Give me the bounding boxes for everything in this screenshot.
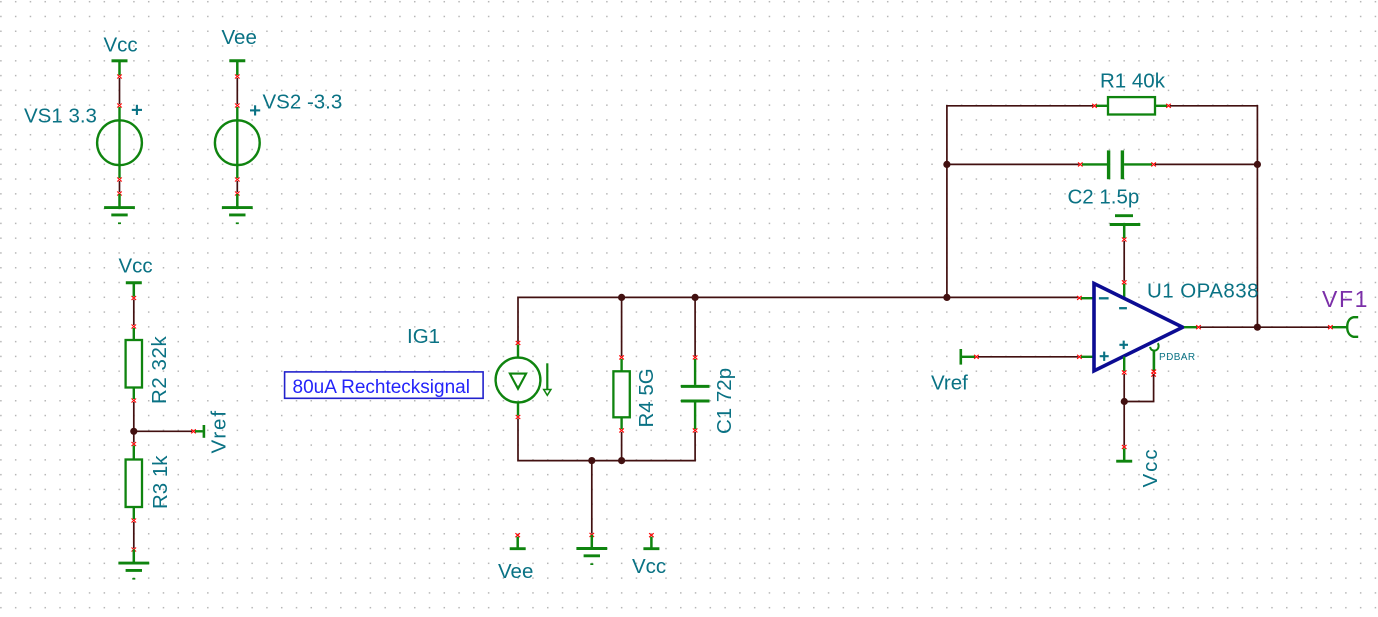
Vee jumper (bottom) — [510, 533, 526, 549]
svg-text:Vcc: Vcc — [632, 555, 666, 578]
Vcc jumper (op-amp supply) — [1116, 445, 1132, 461]
wire non-inverting input row — [978, 355, 1094, 359]
wire R2 to node — [133, 402, 135, 431]
Vee power jumper (VS2 top) — [229, 61, 245, 79]
wire VS1 top — [117, 78, 122, 108]
wire op-amp top pin — [1122, 241, 1127, 300]
junction node feedback left at input row — [943, 294, 950, 301]
wire C2 left — [947, 162, 1083, 166]
PDBAR pin circle — [1150, 343, 1159, 350]
wire inverting input row — [947, 296, 1094, 300]
junction node output vertical at C2 row — [1254, 161, 1261, 168]
ground flipped (op-amp V+ pin) — [1110, 216, 1141, 242]
svg-text:R2 32k: R2 32k — [148, 336, 171, 404]
wire R1 right to output vertical — [1170, 106, 1257, 327]
junction node bottom row at ground — [588, 457, 595, 464]
capacitor C2 — [1082, 150, 1156, 179]
wire top row C1 to feedback node — [695, 296, 947, 298]
Vcc jumper (bottom) — [643, 533, 659, 549]
wire node to R3 — [132, 433, 137, 446]
Vref jumper (op-amp) — [961, 349, 979, 365]
resistor R3 — [126, 446, 142, 523]
wire R4 bottom — [621, 432, 623, 461]
svg-text:Vcc: Vcc — [1139, 447, 1162, 487]
wire ground stem (bottom row) — [590, 461, 595, 537]
svg-text:C1 72p: C1 72p — [713, 368, 736, 434]
wire IG1 bottom to bottom row — [518, 419, 592, 461]
junction node Vref divider — [130, 428, 137, 435]
svg-text:VS2 -3.3: VS2 -3.3 — [263, 91, 343, 114]
ground (VS2) — [222, 194, 253, 224]
junction node feedback left at C2 row — [943, 161, 950, 168]
ground (divider) — [118, 550, 149, 580]
svg-text:Vcc: Vcc — [104, 34, 138, 57]
voltage source VS1 — [97, 107, 142, 182]
Vcc power jumper (VS1 top) — [112, 61, 128, 79]
svg-text:Vcc: Vcc — [119, 255, 153, 278]
IG1 current direction arrow — [544, 363, 551, 395]
svg-text:R1 40k: R1 40k — [1100, 70, 1166, 93]
svg-text:R4 5G: R4 5G — [635, 368, 658, 427]
junction node top row at R4 — [618, 294, 625, 301]
svg-text:Vref: Vref — [931, 372, 968, 395]
Vcc power jumper (divider top) — [126, 283, 142, 300]
op-amp U1 triangle — [1094, 284, 1183, 371]
svg-text:IG1: IG1 — [407, 325, 440, 348]
svg-text:80uA Rechtecksignal: 80uA Rechtecksignal — [293, 377, 470, 398]
wire top row R4 to C1 — [620, 296, 695, 298]
svg-text:R3 1k: R3 1k — [149, 455, 172, 509]
wire bottom row R4 to C1 — [622, 432, 696, 461]
wire IG1 top to node row — [516, 297, 620, 345]
plus polarity mark VS1 — [132, 105, 142, 115]
svg-text:Vee: Vee — [222, 26, 257, 49]
wire bottom row ground to R4 — [592, 460, 622, 462]
resistor R2 — [126, 328, 142, 403]
svg-text:PDBAR: PDBAR — [1159, 352, 1195, 363]
junction node top row at C1 — [692, 294, 699, 301]
svg-text:VF1: VF1 — [1322, 286, 1369, 312]
junction node output vertical at output row — [1254, 324, 1261, 331]
wire divider top — [132, 300, 137, 329]
wire output to VF1 — [1257, 325, 1332, 329]
annotation box 80uA Rechtecksignal — [285, 372, 484, 398]
wire C1 top — [693, 297, 698, 359]
junction node bottom row at R4 — [618, 457, 625, 464]
ground (VS1) — [104, 194, 135, 224]
Vref jumper (divider) — [195, 425, 204, 438]
svg-text:VS1 3.3: VS1 3.3 — [24, 105, 97, 128]
wire node to Vref jumper — [134, 429, 196, 433]
svg-text:Vee: Vee — [498, 560, 533, 583]
plus polarity mark VS2 — [250, 105, 260, 115]
current source IG1 — [496, 345, 541, 420]
voltage probe VF1 — [1332, 317, 1358, 337]
wire feedback left vertical — [947, 106, 1093, 298]
svg-text:Vref: Vref — [208, 409, 231, 453]
svg-text:U1 OPA838: U1 OPA838 — [1147, 280, 1259, 303]
wire VS2 top — [235, 78, 240, 108]
capacitor C1 — [681, 359, 710, 432]
wire R4 top — [619, 297, 624, 359]
resistor R4 — [613, 359, 629, 432]
ground (signal bottom) — [576, 535, 607, 565]
wire VS1 bottom — [117, 181, 122, 196]
junction node op-amp supply — [1121, 398, 1128, 405]
resistor R1 — [1092, 97, 1171, 114]
wire VS2 bottom — [235, 181, 240, 196]
voltage source VS2 — [215, 107, 260, 182]
wire op-amp bottom pin — [1122, 357, 1127, 446]
wire C2 right — [1155, 163, 1257, 165]
wire PDBAR pin — [1126, 351, 1156, 402]
wire op-amp output — [1184, 325, 1257, 329]
svg-text:C2 1.5p: C2 1.5p — [1068, 186, 1140, 209]
wire R3 bottom — [132, 522, 137, 552]
op-amp minus marks — [1099, 298, 1127, 308]
op-amp plus marks — [1100, 341, 1128, 361]
